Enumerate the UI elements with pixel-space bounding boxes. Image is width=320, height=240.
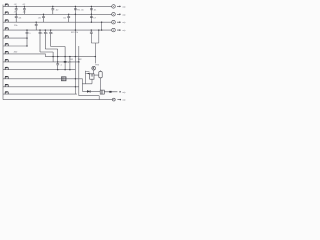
row 3 wire [3,21,112,23]
wire x57.7 down with capacitor [56,49,59,70]
wire: choke feed vertical [82,71,92,84]
capacitor under row4 at x27 [26,30,29,46]
key switch row 3 [5,20,8,22]
output row y91.8 wire [104,91,121,92]
svg-text:R1 .01: R1 .01 [77,9,84,11]
capacitor row1-2 at x52.8 [51,6,54,14]
row 8 wire [3,61,79,63]
capacitor row1-2 at x91.4 [90,9,93,10]
key switch row 4 [5,28,8,30]
wire: row3 to row4 jog at x101.6 [101,22,103,30]
jack J3 row3 [112,20,116,24]
capacitor row3-4 at x36.2 [35,22,38,30]
row 11 wire [3,86,79,88]
vertical wire x75.4 full drop [74,6,76,94]
arrow row1 [117,6,121,7]
diode arrow feed [87,73,90,75]
jack J5 bottom [112,98,115,101]
arrow row3 [117,22,121,23]
row 10 wire [3,79,82,92]
row 12 wire [3,93,77,95]
jack J1 row1 [112,5,116,8]
capacitor row2-3 at x16.2 [15,14,18,22]
driver box [90,74,94,79]
key switch row 7 [5,52,8,54]
capacitor row2-3 at x91.4 [90,17,93,18]
coupling blob on y91.8 [109,91,111,93]
key switch row 2 [5,12,8,14]
key switch row 1 [5,4,8,6]
capacitor under row4 at x91.3 [90,30,93,34]
key switch row 5 [5,36,8,38]
svg-text:R2 22k: R2 22k [71,32,79,34]
row 2 wire [3,13,112,15]
arrow row2 [117,14,121,15]
key switch row 6 [5,44,8,46]
output box bottom right [100,90,104,94]
key switch row 9 [5,67,8,69]
capacitor under row4 at x40 [39,30,54,52]
arrow bottom [117,99,121,100]
wire: row4 branch down [91,30,99,63]
resistor block box [61,77,66,81]
row 4 wire [3,29,112,31]
row 6 wire [3,45,27,47]
wire: diode feed [85,72,89,74]
row 9 wire [3,69,75,71]
capacitor row2-3 at x43.5 [42,14,45,22]
key switch row 8 [5,60,8,62]
key switch row 12 [5,92,8,94]
vertical wire x91.4 rows1-3 [90,6,92,22]
jack J4 row4 [112,28,116,32]
arrow row4 [117,29,121,30]
wire: cylinder drop to output box [94,75,101,90]
vertical wire x78.8 [78,46,80,96]
capacitor under row4 at x45.3 [44,30,58,49]
wire x53.1 down [52,52,54,62]
bottom long wire [3,99,112,101]
wire: diode line [82,90,100,92]
capacitor under row4 at x50.7 [49,30,65,46]
electrolytic capacitor cylinder [99,71,102,77]
left bus wire [2,5,4,100]
capacitor row1-2 at x16.2 [15,6,18,14]
wire: lower return line [79,95,99,97]
row 7 wire + step to bus [3,54,95,57]
wire: transistor collector [93,70,95,74]
transistor TR output [92,66,96,70]
wire: lower return drop [98,96,100,100]
capacitor row2-3 at x68.7 [67,14,70,22]
diode D1 [87,90,90,93]
row 1 wire [3,5,112,7]
capacitor row1-2 at x75.4 [74,9,77,10]
wire x65.1 down with capacitor [64,47,67,70]
capacitor row1-2 at x24.4 [23,6,26,14]
jack J2 row2 [112,13,116,16]
key switch row 10 [5,76,8,78]
row 5 wire [3,37,27,39]
vertical wire x69.9 [69,57,71,70]
key switch row 11 [5,84,8,86]
